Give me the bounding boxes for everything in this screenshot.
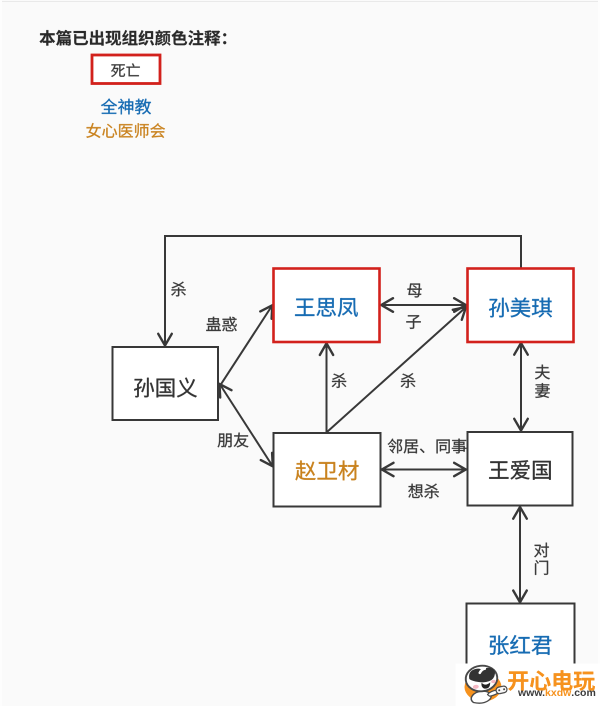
logo url text [518, 689, 596, 698]
box 王爱国 [468, 432, 573, 506]
label 蛊惑 [206, 317, 236, 332]
label 夫 [535, 365, 550, 380]
arrow 杀: 赵卫材 to 王思凤 (vertical) [320, 343, 333, 433]
label 妻 [535, 383, 549, 398]
logo text 开心电玩 [508, 670, 595, 691]
legend 全神教 [101, 99, 151, 115]
label 想杀 [408, 484, 439, 499]
label 朋友 [218, 433, 249, 448]
arrow 朋友: 孙国义 <-> 赵卫材 [220, 384, 273, 466]
title 本篇已出现组织颜色注释 [39, 30, 226, 46]
arrow 邻居同事/想杀: 王爱国 <-> 赵卫材 [382, 463, 466, 476]
legend 女心医师会 [86, 123, 165, 138]
arrow 夫妻: 孙美琪 <-> 王爱国 [514, 343, 528, 431]
label 杀 (top rail) [171, 282, 185, 297]
box 张红君 [467, 604, 575, 678]
label 母 [407, 284, 421, 298]
wire 杀: 孙美琪 top rail to 孙国义 (arrow down) [158, 236, 521, 346]
arrow 对门: 王爱国 <-> 张红君 [513, 507, 527, 602]
box 孙美琪 (red) [468, 269, 574, 343]
label 邻居、同事 [388, 439, 467, 454]
label 门 [535, 560, 548, 575]
label 杀 (diagonal) [401, 373, 415, 388]
legend red box 死亡 [92, 55, 160, 84]
label 对 [534, 543, 549, 558]
box 孙国义 [113, 347, 219, 420]
arrow 杀: 赵卫材 to 孙美琪 (diagonal) [327, 307, 466, 432]
label 子 [406, 315, 420, 329]
box 王思凤 (red) [274, 269, 380, 343]
arrow 蛊惑: 孙国义 to 王思凤 [220, 305, 273, 386]
box 赵卫材 [274, 433, 381, 507]
label 杀 (center) [332, 373, 346, 388]
logo mascot [464, 664, 507, 703]
logo background plate [456, 664, 600, 706]
arrow 母子: 王思凤 <-> 孙美琪 [381, 298, 466, 312]
